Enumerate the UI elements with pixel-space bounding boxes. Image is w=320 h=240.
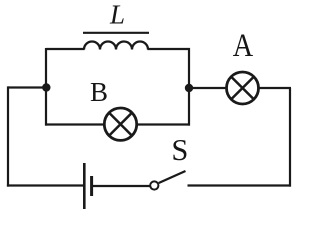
node: left junction dot xyxy=(42,83,50,91)
lamp B xyxy=(104,108,136,140)
lamp A xyxy=(227,72,259,104)
svg-text:B: B xyxy=(90,77,108,107)
battery: long plate xyxy=(83,163,86,209)
battery: short plate xyxy=(90,176,93,196)
svg-text:L: L xyxy=(109,0,125,30)
inductor L coil xyxy=(84,42,148,50)
wire: top branch right segment xyxy=(148,48,191,50)
inductor L core bar xyxy=(83,32,149,34)
wire: battery to switch xyxy=(93,185,150,187)
wire: lamp A to right rail xyxy=(258,87,291,89)
node: right junction dot xyxy=(185,84,193,92)
wire: bottom branch left (to lamp B) xyxy=(45,123,104,125)
wire: outer right vertical rail xyxy=(289,88,291,187)
wire: right node to lamp A xyxy=(189,87,227,89)
switch S lever (open) xyxy=(159,171,186,183)
svg-text:S: S xyxy=(171,133,188,167)
wire: left loop vertical xyxy=(45,48,47,126)
wire: outer left vertical rail xyxy=(7,86,9,186)
switch S pivot circle xyxy=(150,181,158,189)
wire: switch fixed contact to bottom right xyxy=(188,184,292,186)
svg-text:A: A xyxy=(233,28,254,64)
wire: bottom left horizontal to battery xyxy=(7,184,83,186)
wire: from left node to outer left rail xyxy=(8,86,47,88)
wire: top branch left segment xyxy=(46,48,85,50)
wire: bottom branch right (from lamp B) xyxy=(137,123,191,125)
wire: right loop vertical xyxy=(188,48,190,126)
